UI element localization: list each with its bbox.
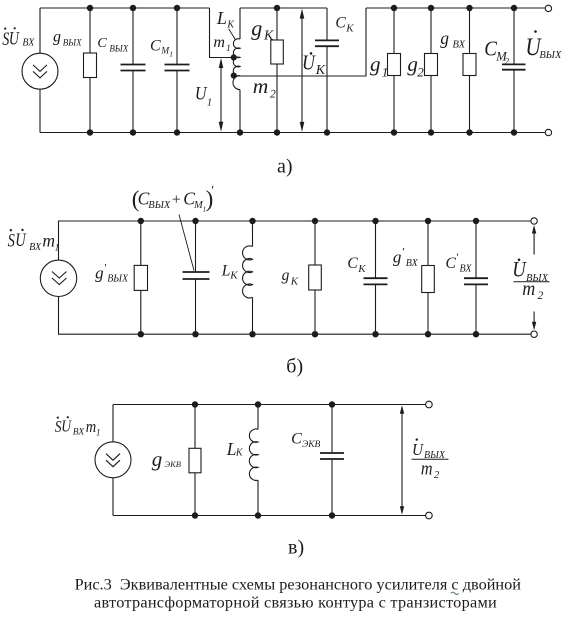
wire coil top lead <box>239 8 241 39</box>
svg-text:+: + <box>172 191 181 208</box>
svg-text:1: 1 <box>382 65 389 80</box>
current source SU_vx m1 (b) <box>40 260 76 296</box>
svg-text:2: 2 <box>538 290 544 302</box>
wire coil bottom lead <box>239 90 241 133</box>
svg-text:автотрансформаторной связью ко: автотрансформаторной связью контура с тр… <box>94 593 497 612</box>
capacitor C_m2 branch wire <box>513 8 515 133</box>
junction g_K top (b) <box>312 218 318 224</box>
wire bottom rail (v) <box>113 515 426 517</box>
svg-text:L: L <box>216 8 227 28</box>
capacitor C_m1 branch wire <box>176 8 178 133</box>
wire source leads v <box>112 405 114 516</box>
junction g'_vyh bottom <box>138 331 144 337</box>
svg-text:К: К <box>315 63 326 78</box>
grammar squiggle under s <box>451 592 459 594</box>
wire right top rail (a) <box>366 7 545 9</box>
node tap m1 <box>231 54 237 60</box>
svg-text:′: ′ <box>456 250 459 264</box>
capacitor C_ekv branch wire <box>331 405 333 516</box>
pointer line to capacitor (b) <box>179 215 194 271</box>
svg-text:К: К <box>229 270 238 282</box>
capacitor (C_vyh+C_m1)' <box>183 272 210 279</box>
arrow U_K <box>301 12 303 129</box>
junction C_m2 top <box>511 5 517 11</box>
junction g_K bottom (b) <box>312 331 318 337</box>
svg-text:1: 1 <box>55 244 60 254</box>
junction g_vx top <box>466 5 472 11</box>
svg-text:S: S <box>8 230 16 251</box>
junction C_vyh top <box>130 5 136 11</box>
arrow output lower shaft (b) <box>533 312 535 327</box>
junction g_vx bottom <box>466 129 472 135</box>
inductor L_K (v) bottom lead <box>257 480 259 515</box>
capacitor C_vyh <box>121 65 146 71</box>
arrowhead output top (v) <box>400 405 404 414</box>
arrowhead output bottom (b) <box>532 322 536 331</box>
terminal bottom right (a) <box>545 129 551 135</box>
resistor g'_vyh <box>134 265 147 290</box>
junction L_K bottom (b) <box>249 331 255 337</box>
capacitor C_vyh branch wire <box>132 8 134 133</box>
capacitor C_K (a) <box>315 40 339 46</box>
svg-text:ВХ: ВХ <box>22 38 35 49</box>
capacitor C_ekv <box>320 453 344 459</box>
junction C_m2 bottom <box>511 129 517 135</box>
junction g_K bottom <box>274 129 280 135</box>
junction g_vyh top <box>87 5 93 11</box>
wire top rail (v) <box>113 404 426 406</box>
svg-text:U: U <box>15 229 26 250</box>
capacitor (C_vyh+C_m1)' branch wire <box>195 221 197 334</box>
junction C'_vx top <box>473 218 479 224</box>
svg-text:g: g <box>53 29 61 46</box>
svg-text:ВХ: ВХ <box>406 258 419 269</box>
svg-text:C: C <box>347 255 358 272</box>
arrowhead U_1 bottom <box>219 122 224 132</box>
wire m2 tap to right section <box>234 8 366 76</box>
svg-text:m: m <box>253 74 269 98</box>
svg-text:m: m <box>213 34 225 51</box>
wire bottom rail (a) <box>40 132 545 134</box>
svg-text:2: 2 <box>417 65 424 80</box>
resistor g_2 <box>425 54 438 76</box>
svg-text:C: C <box>291 430 302 447</box>
junction L_K top (v) <box>255 401 261 407</box>
wire bottom rail (b) <box>58 333 531 335</box>
junction g_2 top <box>428 5 434 11</box>
svg-text:б): б) <box>286 356 303 378</box>
junction g_1 bottom <box>391 129 397 135</box>
svg-text:1: 1 <box>207 97 213 109</box>
junction g'_vx top <box>425 218 431 224</box>
arrowhead output bottom (v) <box>400 506 404 515</box>
wire source top lead a <box>39 8 41 53</box>
wire source leads b <box>58 221 60 334</box>
capacitor C_K (b) <box>364 278 388 284</box>
capacitor C'_vx <box>464 278 488 284</box>
inductor L_K (v) <box>249 429 258 480</box>
terminal bottom right (v) <box>426 512 433 519</box>
capacitor C_m1 <box>165 65 190 71</box>
junction cap (C_vyh+C_m1)' bottom <box>192 331 198 337</box>
junction C_K bottom (b) <box>372 331 378 337</box>
svg-text:ВЫХ: ВЫХ <box>109 43 128 53</box>
resistor g_K (a) <box>271 40 284 64</box>
svg-text:ЭКВ: ЭКВ <box>165 459 181 469</box>
svg-text:ЭКВ: ЭКВ <box>302 440 321 450</box>
junction C_m1 bottom <box>174 129 180 135</box>
junction g_ekv top <box>192 401 198 407</box>
svg-text:1: 1 <box>169 49 173 58</box>
junction C_m1 top <box>174 5 180 11</box>
inductor L_K (v) lead <box>257 405 259 430</box>
svg-text:ВХ: ВХ <box>73 428 86 438</box>
arrowhead output top (b) <box>532 225 536 234</box>
resistor g'_vx <box>422 266 435 293</box>
svg-text:g: g <box>393 247 402 266</box>
svg-text:в): в) <box>288 536 304 558</box>
inductor L_K (a) <box>233 39 240 90</box>
capacitor C_K branch wire (b) <box>375 221 377 334</box>
resistor g'_vx branch wire <box>427 221 429 334</box>
svg-text:К: К <box>263 28 274 43</box>
capacitor C'_vx branch wire <box>475 221 477 334</box>
svg-text:К: К <box>345 23 354 35</box>
junction C_ekv top <box>329 401 335 407</box>
svg-text:Рис.3 Эквивалентные схемы рез: Рис.3 Эквивалентные схемы резонансного у… <box>75 574 522 593</box>
svg-text:g: g <box>152 447 163 471</box>
junction C_K bottom <box>324 129 330 135</box>
resistor g_K branch wire (a) <box>276 8 278 133</box>
junction C'_vx bottom <box>473 331 479 337</box>
svg-text:К: К <box>357 263 366 275</box>
svg-text:g: g <box>440 28 449 48</box>
junction g'_vx bottom <box>425 331 431 337</box>
svg-text:ВЫХ: ВЫХ <box>63 37 82 47</box>
inductor L_K (b) bottom lead <box>252 297 254 334</box>
svg-text:′: ′ <box>104 261 107 275</box>
terminal top right (v) <box>426 401 433 408</box>
svg-text:ВЫХ: ВЫХ <box>107 274 129 285</box>
resistor g_K (b) <box>309 265 322 290</box>
junction g_ekv bottom <box>192 512 198 518</box>
svg-text:m: m <box>421 457 433 479</box>
svg-text:C: C <box>335 15 346 32</box>
svg-text:U: U <box>195 82 208 104</box>
svg-text:U: U <box>9 28 20 49</box>
arrowhead U_K bottom <box>300 122 305 132</box>
junction g'_vyh top <box>138 218 144 224</box>
junction L_K top (b) <box>249 218 255 224</box>
svg-text:′: ′ <box>402 245 405 259</box>
svg-text:C: C <box>97 36 107 51</box>
pointer line L_K (a) <box>229 29 236 40</box>
current source SU_vx m1 (v) <box>95 442 131 478</box>
resistor g_K branch wire (b) <box>314 221 316 334</box>
wire drop to tap m1 <box>210 8 233 58</box>
resistor g_vyh branch wire <box>89 8 91 133</box>
svg-text:m: m <box>522 278 535 300</box>
current source SU_vx (a) <box>22 53 58 89</box>
svg-text:1: 1 <box>96 427 101 437</box>
terminal top right (b) <box>531 218 537 224</box>
arrow output shaft (v) <box>401 410 403 511</box>
resistor g_1 branch wire <box>393 8 395 133</box>
junction cap (C_vyh+C_m1)' top <box>192 218 198 224</box>
arrowhead U_K top <box>300 9 305 19</box>
svg-text:U: U <box>302 52 317 75</box>
svg-text:ВХ: ВХ <box>460 264 473 275</box>
capacitor C_K branch wire (a) <box>326 8 328 133</box>
svg-text:2: 2 <box>505 57 510 67</box>
junction L_K bottom <box>237 129 243 135</box>
junction C_vyh bottom <box>130 129 136 135</box>
svg-text:ВЫХ: ВЫХ <box>148 200 171 211</box>
svg-text:m: m <box>86 418 96 436</box>
junction C_ekv bottom <box>329 512 335 518</box>
svg-text:g: g <box>95 263 104 282</box>
resistor g_vx <box>463 54 476 76</box>
node tap m2 <box>231 73 237 79</box>
resistor g_2 branch wire <box>430 8 432 133</box>
svg-text:К: К <box>290 276 299 288</box>
junction g_2 bottom <box>428 129 434 135</box>
svg-text:U: U <box>61 417 72 436</box>
resistor g_1 <box>388 54 401 76</box>
capacitor C_m2 <box>502 64 526 69</box>
svg-text:g: g <box>370 52 381 76</box>
resistor g_ekv <box>189 448 201 473</box>
wire tank top rail <box>240 7 327 9</box>
arrow output upper shaft (b) <box>533 230 535 255</box>
wire source bottom lead a <box>39 89 41 132</box>
svg-text:′: ′ <box>211 183 214 198</box>
wire top rail (b) <box>58 220 531 222</box>
resistor g_vx branch wire <box>469 8 471 133</box>
resistor g'_vyh branch wire <box>140 221 142 334</box>
resistor g_vyh <box>84 53 97 78</box>
svg-text:C: C <box>446 255 457 272</box>
terminal top right (a) <box>545 5 551 11</box>
svg-text:L: L <box>221 262 231 279</box>
junction C_K top (b) <box>372 218 378 224</box>
svg-text:ВЫХ: ВЫХ <box>539 50 562 61</box>
junction g_1 top <box>391 5 397 11</box>
junction g_vyh bottom <box>87 129 93 135</box>
junction g_K top <box>274 5 280 11</box>
wire top rail left (circuit a) <box>40 7 210 9</box>
arrow U_1 <box>220 61 222 128</box>
svg-text:ВХ: ВХ <box>453 40 466 51</box>
svg-text:а): а) <box>277 156 293 178</box>
resistor g_ekv branch wire <box>194 405 196 516</box>
junction L_K bottom (v) <box>255 512 261 518</box>
arrowhead U_1 top <box>219 58 224 68</box>
svg-text:1: 1 <box>226 44 231 54</box>
svg-text:2: 2 <box>434 470 440 481</box>
svg-text:ВХ: ВХ <box>29 242 42 253</box>
svg-text:g: g <box>282 267 290 284</box>
svg-text:g: g <box>251 16 262 41</box>
inductor L_K (b) lead <box>252 221 254 247</box>
svg-text:C: C <box>150 38 161 55</box>
terminal bottom right (b) <box>531 331 537 337</box>
inductor L_K (b) <box>243 246 253 298</box>
svg-text:m: m <box>42 230 55 250</box>
svg-text:2: 2 <box>270 89 276 101</box>
